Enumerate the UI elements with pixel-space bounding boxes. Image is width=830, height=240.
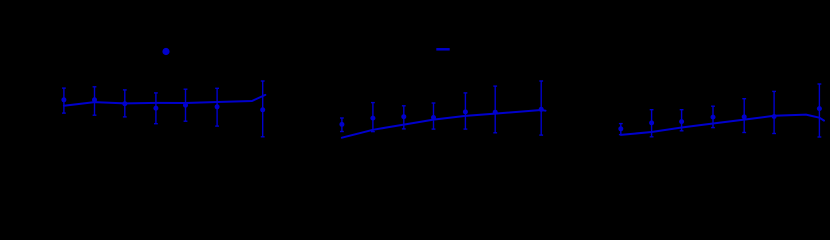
error bar right point 7 bbox=[818, 84, 822, 137]
error bar right point 6 bbox=[772, 91, 776, 133]
legend marker dot (left subplot) bbox=[162, 48, 169, 55]
error bar middle point 4 bbox=[432, 103, 436, 129]
error bar left point 1 bbox=[62, 88, 66, 113]
legend line sample (middle subplot) bbox=[436, 48, 449, 51]
dot markers left bbox=[61, 97, 265, 112]
error bar left point 2 bbox=[93, 87, 97, 115]
error bar right point 3 bbox=[680, 110, 684, 131]
trend line left bbox=[64, 95, 265, 106]
error bar middle point 7 bbox=[539, 81, 543, 135]
error bar left point 5 bbox=[184, 89, 188, 121]
error bar left point 4 bbox=[154, 93, 158, 124]
error bar middle point 5 bbox=[464, 93, 468, 129]
dot markers right bbox=[618, 106, 822, 131]
error bar left point 6 bbox=[215, 88, 219, 126]
subplot left: errorbar series bbox=[62, 81, 265, 137]
error bar middle point 2 bbox=[371, 103, 375, 132]
subplot right: errorbar series bbox=[619, 84, 821, 137]
error bar right point 1 bbox=[619, 124, 623, 135]
error bar middle point 6 bbox=[493, 86, 497, 133]
trend line middle bbox=[342, 110, 546, 138]
error bar middle point 3 bbox=[402, 106, 406, 129]
error bar left point 3 bbox=[123, 90, 127, 117]
subplot middle: errorbar series bbox=[340, 81, 543, 135]
error bar right point 2 bbox=[650, 110, 654, 137]
error bar middle point 1 bbox=[340, 118, 344, 132]
trend line right bbox=[621, 115, 824, 135]
error bar right point 5 bbox=[742, 99, 746, 133]
dot markers middle bbox=[339, 107, 543, 127]
error bar right point 4 bbox=[711, 106, 715, 127]
error bar left point 7 bbox=[261, 81, 265, 137]
